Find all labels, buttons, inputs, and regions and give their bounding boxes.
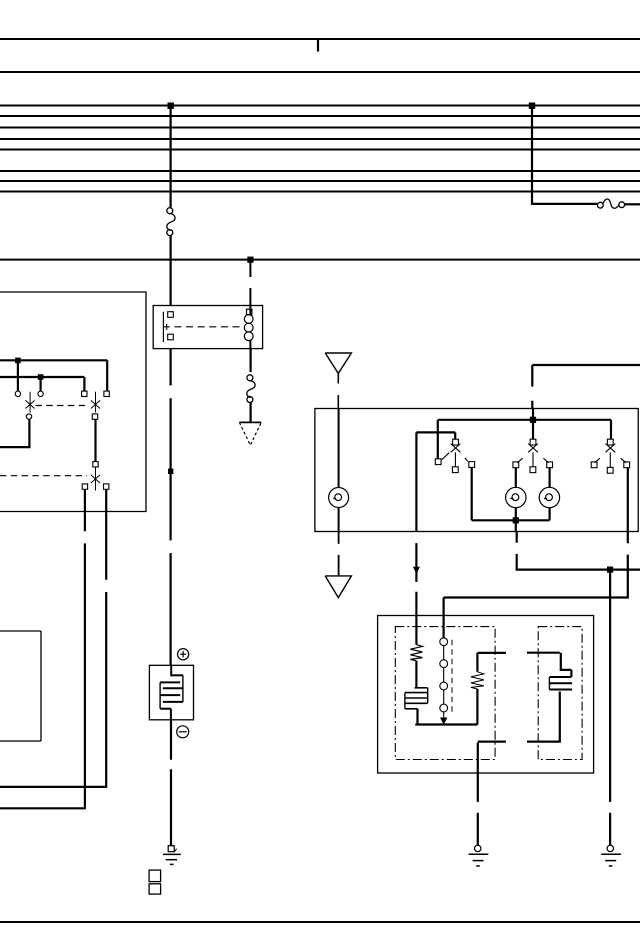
- relay linkage dashed: [175, 326, 244, 328]
- switch SW3: [591, 439, 629, 473]
- wire feed left column: [170, 106, 172, 209]
- wire relay contact output dashed column: [170, 349, 172, 666]
- switch SW2: [513, 439, 553, 472]
- pin a4: [104, 391, 109, 396]
- junction dot A: [168, 103, 174, 109]
- fusible link F3: [247, 375, 255, 403]
- wire ground stub left: [478, 742, 506, 846]
- wire lamp bus out: [515, 520, 517, 531]
- wire bus line 1: [0, 105, 640, 107]
- junction dot H: [607, 567, 613, 573]
- wire lamp bus to right rail: [516, 532, 640, 570]
- wire bus line 5: [0, 149, 640, 151]
- wire r2 bottom: [476, 689, 478, 725]
- connector arrow T1: [239, 421, 261, 423]
- junction dot C: [247, 257, 253, 263]
- relay pin 1: [168, 312, 174, 318]
- wire sw1 right contact drop: [471, 468, 473, 521]
- junction dot B: [529, 103, 535, 109]
- wire below relay: [250, 349, 252, 372]
- ground G3 connector: [607, 845, 613, 851]
- wire s1 mid link: [94, 419, 96, 461]
- lamp L1: [329, 488, 349, 508]
- wire switch common feed: [532, 409, 534, 440]
- switch blade 1b: [91, 392, 100, 413]
- switch blade 2: [91, 467, 100, 490]
- wire lamp1 feed: [338, 409, 340, 488]
- condenser unit 1 dash-dot box: [395, 627, 495, 760]
- pin b1: [26, 414, 31, 419]
- lamp L2: [506, 487, 526, 507]
- wire fuse to edge: [625, 203, 640, 205]
- wire to connector arrow: [250, 402, 252, 422]
- wire right feed rail: [532, 365, 640, 409]
- wire bus line 8: [0, 191, 640, 193]
- wire top rail: [0, 38, 640, 40]
- connector chain arrow: [440, 718, 447, 725]
- battery plus symbol: [178, 649, 189, 660]
- node tick on top rail: [317, 39, 319, 52]
- relay coil L1: [244, 306, 253, 349]
- junction dot F: [530, 417, 536, 423]
- relay contact plate: [162, 312, 164, 342]
- wire s1 pin stub 1: [17, 360, 19, 391]
- junction marker on column: [168, 469, 173, 474]
- pin c2: [104, 484, 109, 489]
- wire lamp2 feed: [515, 468, 517, 488]
- connector chain pins: [440, 638, 448, 718]
- wire rail right drop: [610, 420, 612, 440]
- wire coil feed dashed: [249, 260, 251, 306]
- battery minus symbol: [177, 726, 189, 738]
- relay pin 2: [168, 334, 174, 340]
- capacitor C3 top lead: [527, 653, 571, 677]
- pin b3: [93, 462, 98, 467]
- switch blade 1: [26, 392, 35, 413]
- fusible link F1: [167, 208, 175, 236]
- wire bus line 6: [0, 170, 640, 172]
- wire sw3 to condenser: [444, 532, 629, 638]
- junction marker on drop: [413, 567, 420, 574]
- pin a3: [82, 391, 87, 396]
- junction dot D: [15, 358, 21, 364]
- junction dot E: [38, 374, 44, 380]
- wire bus line 4: [0, 138, 640, 140]
- switch SW1: [435, 439, 474, 472]
- wire to ground G3: [609, 570, 611, 846]
- wire r2 top stub: [477, 653, 506, 672]
- wire s1 pin stub 2: [39, 377, 41, 391]
- wire s1 feed 2: [0, 377, 84, 391]
- wire c2 out: [415, 709, 477, 725]
- ground G3: [601, 854, 621, 866]
- connector arrow T3: [325, 576, 351, 598]
- connector label box 2: [149, 884, 161, 894]
- wire lamp1 below box dashed: [338, 532, 340, 576]
- connector label box 1: [149, 870, 161, 882]
- wire rail left drop: [437, 420, 439, 459]
- ground G1 connector: [168, 846, 174, 852]
- wire second rail: [0, 71, 640, 73]
- wire lamp1 out: [338, 508, 340, 532]
- wire arrow to box dashed: [337, 373, 339, 408]
- junction dot G: [513, 517, 519, 523]
- lamp L3: [539, 487, 559, 507]
- wire mid rail: [0, 259, 640, 261]
- switch linkage dashed 1: [36, 405, 88, 407]
- wire s1 feed 1: [0, 360, 107, 391]
- switch assembly S1 box: [0, 292, 146, 512]
- fuse F2: [597, 199, 624, 208]
- wire sub rail: [416, 432, 455, 439]
- wire feed right column: [532, 106, 597, 205]
- lighting switch box: [315, 409, 638, 532]
- pin a1: [15, 391, 20, 396]
- battery C1 box: [149, 665, 193, 720]
- wire link to relay: [170, 235, 172, 305]
- condenser unit 2 dash-dot box: [538, 627, 582, 760]
- pin c1: [82, 484, 87, 489]
- wire battery to ground: [170, 720, 172, 846]
- wire r1 to c2: [415, 661, 417, 688]
- wire s1 out left: [0, 419, 31, 447]
- ground G1: [163, 854, 181, 864]
- capacitor C3 bottom lead: [527, 692, 561, 742]
- capacitor C3 plates: [549, 677, 572, 690]
- relay hinge cross: [164, 324, 170, 330]
- relay U1 box: [153, 306, 262, 349]
- resistor R1: [410, 645, 422, 661]
- wire lamp3 feed: [548, 468, 550, 488]
- chain linkage dashed: [451, 640, 453, 712]
- wire lamp bottom bus: [472, 508, 550, 521]
- resistor R2: [471, 672, 484, 689]
- wire s1 out B long: [0, 490, 107, 787]
- pin b2: [92, 414, 97, 419]
- wire bottom rail: [0, 921, 640, 923]
- wire bus line 2: [0, 115, 640, 117]
- wire bus line 7: [0, 180, 640, 182]
- wire s1 out A long: [0, 490, 86, 809]
- switch linkage dashed 2: [0, 475, 87, 477]
- battery plates: [160, 665, 183, 720]
- wire sw3 right contact drop: [627, 468, 629, 532]
- wire bus line 3: [0, 127, 640, 129]
- connector arrow T2: [325, 353, 351, 373]
- ground G2: [469, 854, 489, 866]
- noise suppressor box: [378, 616, 594, 774]
- component box lower left: [0, 631, 41, 741]
- ground G2 connector: [475, 845, 481, 851]
- capacitor C2 plates: [405, 688, 428, 709]
- wire switch top rail: [438, 419, 611, 421]
- pin a2: [38, 391, 43, 396]
- wire long drop to condenser dashed: [415, 432, 417, 644]
